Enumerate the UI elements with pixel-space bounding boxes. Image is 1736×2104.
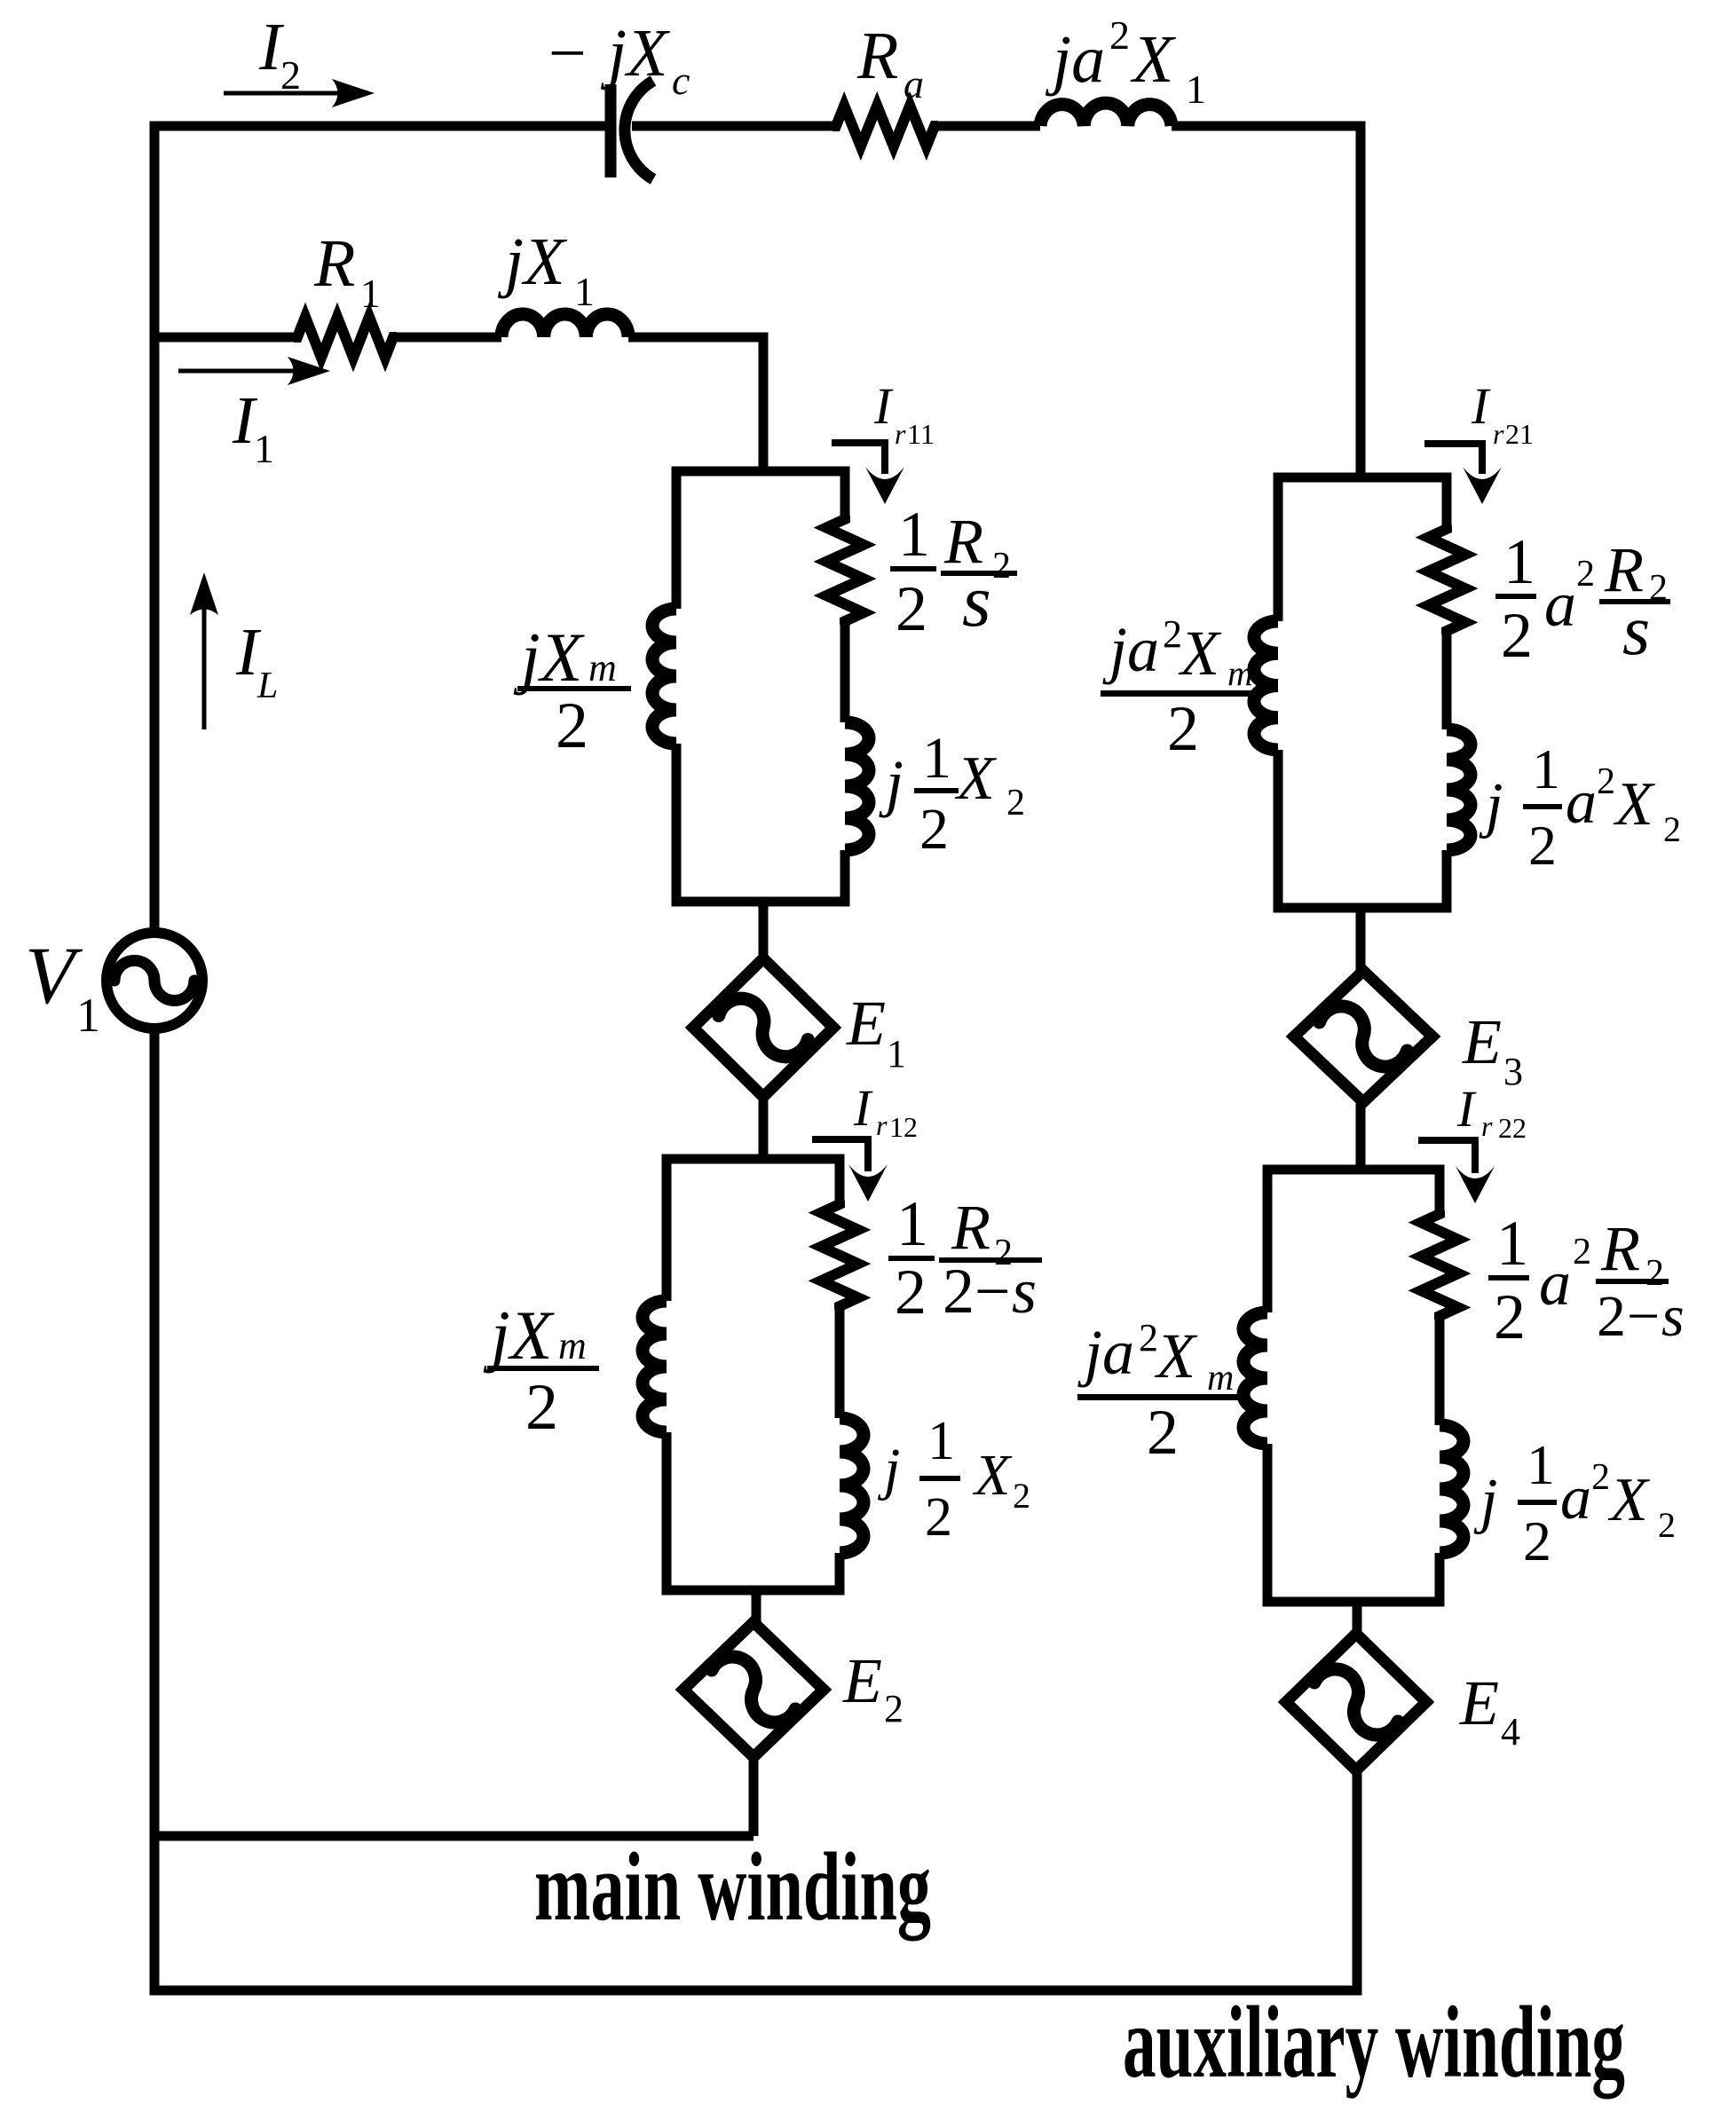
svg-text:1: 1 [1496,1208,1528,1279]
svg-text:R: R [951,1192,990,1263]
wire top from capacitor junction to right corner [1172,126,1361,477]
svg-text:1: 1 [254,426,274,471]
svg-text:21: 21 [1505,418,1534,450]
svg-text:2: 2 [884,1687,904,1730]
svg-text:I: I [1456,1080,1477,1138]
resistor Ra [832,106,938,146]
svg-text:1: 1 [360,271,381,316]
inductor j X2/2 block2 [840,1418,864,1553]
wire main block1 right branch middle [840,621,850,722]
resistor R2/2s block1 [826,516,864,625]
svg-text:r: r [1493,418,1504,450]
arrow Ir11 [832,443,885,474]
wire from E2 down to main return [749,1757,759,1836]
svg-text:X: X [1613,770,1656,839]
svg-text:E: E [846,988,886,1059]
inductor j X2/2 block1 [845,722,869,850]
wire stub main block1 to E1 [759,902,769,958]
svg-text:2: 2 [1163,612,1182,656]
resistor R2/2(2-s) block2 [821,1201,858,1310]
wire main block2 right branch middle [835,1306,845,1418]
svg-text:X: X [1178,618,1222,689]
wire row2 from jX1 to corner down into main block1 [628,337,763,471]
svg-text:R: R [856,19,898,93]
svg-text:r: r [1481,1110,1493,1142]
arrow Ir12 [812,1139,868,1171]
wire aux block2 right branch middle [1435,1316,1445,1425]
svg-text:2: 2 [1597,1284,1626,1349]
wire aux block2 bottom and lower branches [1267,1444,1440,1602]
svg-text:3: 3 [1503,1050,1523,1093]
svg-text:auxiliary winding: auxiliary winding [1123,1986,1625,2099]
svg-text:2: 2 [919,797,949,862]
wire aux block2 top and upper branches [1267,1170,1440,1312]
svg-text:m: m [588,646,617,690]
wire main block2 top and upper branches [667,1159,840,1301]
svg-text:jX: jX [600,16,670,91]
svg-text:1: 1 [574,269,595,314]
wire left vertical below V1, bottom wire, riser to E4 [154,1030,1357,1990]
wire row2 between R1 and jX1 [393,333,501,343]
svg-text:22: 22 [1498,1112,1527,1144]
svg-text:R: R [313,226,355,301]
svg-text:ja: ja [1045,22,1105,97]
svg-text:X: X [1130,22,1176,97]
svg-text:2: 2 [1006,783,1025,823]
svg-text:1: 1 [1186,67,1206,112]
inductor jXm/2 block2 [643,1301,667,1432]
controlled source E1 [693,958,833,1097]
svg-text:main winding: main winding [534,1832,931,1941]
svg-text:r: r [895,418,906,450]
arrow IL [202,603,207,729]
wire stub aux block1 to E3 [1356,908,1366,971]
wire main winding return [154,1832,754,1841]
svg-text:s: s [1622,592,1650,670]
svg-text:a: a [1544,569,1576,640]
wire aux block1 top and upper branches [1278,477,1447,621]
source V1 [107,933,202,1028]
svg-text:R: R [1600,1213,1640,1284]
svg-text:2: 2 [895,1257,927,1328]
svg-text:11: 11 [907,418,935,450]
wire stub E1 to main block2 [759,1097,769,1159]
svg-text:2: 2 [1573,1232,1591,1273]
svg-text:2: 2 [556,690,588,762]
svg-text:I: I [873,377,894,435]
svg-text:12: 12 [889,1111,918,1143]
svg-text:I: I [1471,377,1491,435]
svg-text:s: s [962,560,991,642]
svg-text:m: m [1227,653,1253,693]
svg-text:X: X [1607,1466,1651,1534]
svg-text:2: 2 [1663,809,1681,849]
svg-text:2: 2 [1494,1281,1526,1352]
svg-text:1: 1 [1527,1433,1555,1496]
svg-text:I: I [853,1079,873,1137]
svg-text:jX: jX [483,1296,556,1374]
svg-text:2: 2 [1597,761,1615,802]
svg-text:2: 2 [1591,1457,1610,1498]
svg-text:a: a [1560,1464,1591,1533]
svg-text:1: 1 [887,1032,906,1076]
svg-text:r: r [876,1109,888,1141]
controlled source E4 [1286,1634,1426,1770]
inductor j a2X2/2 aux block2 [1440,1425,1464,1553]
svg-text:jX: jX [497,225,567,299]
wire top-left corner and left vertical to source V1 [154,126,606,931]
controlled source E3 [1294,971,1432,1102]
svg-text:1: 1 [76,989,100,1042]
svg-text:1: 1 [922,726,951,791]
svg-text:c: c [672,58,690,103]
inductor jXm/2 block1 [652,609,676,744]
svg-text:2: 2 [1139,1316,1158,1359]
svg-text:X: X [972,1443,1013,1508]
svg-text:1: 1 [1503,526,1535,597]
svg-text:−: − [975,1256,1011,1327]
arrow Ir21 [1424,444,1482,474]
svg-text:X: X [954,745,998,813]
inductor ja2X1 [1040,103,1172,126]
svg-text:−: − [548,16,587,91]
svg-text:2: 2 [1109,12,1130,58]
svg-text:2: 2 [1658,1505,1676,1545]
resistor R1 [294,317,397,358]
svg-text:s: s [1661,1284,1685,1349]
svg-text:E: E [1459,1667,1499,1738]
svg-text:ja: ja [1077,1317,1134,1388]
resistor a2R2/2(2-s) aux block2 [1421,1210,1458,1320]
svg-text:4: 4 [1501,1710,1520,1753]
wire top between resistor Ra and capacitor [632,122,836,131]
svg-text:E: E [842,1645,882,1716]
inductor j a2X2/2 aux block1 [1447,729,1471,850]
svg-text:2: 2 [1167,693,1199,764]
wire aux block1 bottom and lower branches [1278,750,1447,908]
wire top between inductor ja2X1 and resistor Ra [935,122,1040,131]
svg-text:2: 2 [1501,600,1533,671]
svg-text:2: 2 [1013,1476,1030,1516]
svg-text:1: 1 [896,1188,928,1259]
svg-text:a: a [1566,768,1597,837]
svg-text:E: E [1462,1006,1502,1077]
svg-text:2: 2 [1523,1509,1551,1572]
svg-text:1: 1 [927,1411,955,1471]
svg-text:a: a [1539,1248,1571,1319]
wire stub E3 to aux block2 [1356,1102,1366,1170]
controlled source E2 [683,1622,824,1757]
capacitor -jXc [605,84,617,177]
inductor ja2Xm/2 aux block1 [1254,621,1278,750]
svg-text:2: 2 [280,52,301,98]
svg-text:2: 2 [943,1256,975,1327]
svg-text:ja: ja [1102,614,1159,685]
svg-text:2: 2 [1147,1397,1179,1468]
arrow Ir22 [1418,1140,1475,1173]
svg-text:jX: jX [513,619,586,696]
svg-text:V: V [25,930,83,1020]
svg-text:2: 2 [896,573,927,644]
svg-text:L: L [256,666,278,706]
wire stub aux block2 to E4 [1353,1602,1362,1634]
svg-text:s: s [1012,1256,1037,1327]
svg-text:2: 2 [1576,554,1595,595]
inductor jX1 [501,314,628,337]
wire main block2 bottom and lower branches [667,1432,840,1590]
svg-text:2: 2 [925,1487,952,1548]
wire main block1 bottom and lower branches [676,744,845,902]
wire stub main block2 to E2 [752,1590,761,1622]
resistor a2R2/2s aux block1 [1428,525,1465,634]
svg-text:m: m [1207,1358,1234,1399]
arrow I2 [224,91,344,96]
svg-text:1: 1 [898,499,930,570]
svg-text:a: a [904,61,924,106]
svg-text:X: X [1154,1320,1198,1391]
wire aux block1 right branch middle [1442,631,1452,729]
svg-text:2: 2 [1528,814,1557,877]
arrow I1 [178,369,300,374]
svg-text:2: 2 [992,546,1011,587]
svg-text:−: − [1627,1284,1660,1349]
wire row2 from left vertical to R1 [154,333,297,343]
svg-text:2: 2 [525,1371,558,1444]
inductor ja2Xm/2 aux block2 [1243,1312,1267,1444]
svg-text:1: 1 [1532,737,1560,800]
wire main block1 top-left and top [676,471,845,609]
svg-text:m: m [558,1324,587,1367]
